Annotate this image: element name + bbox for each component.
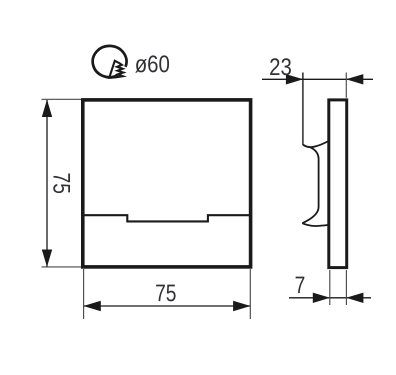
- side view top hook curve: [303, 141, 329, 147]
- bottom dim 7 line: [289, 297, 371, 299]
- bottom dim arrow left: [83, 301, 100, 311]
- front view notch line: [84, 215, 249, 221]
- top dim 23 line: [262, 78, 373, 80]
- top dim right extension: [345, 73, 347, 98]
- bottom dim arrow right: [233, 301, 250, 311]
- bottom dimension line: [84, 305, 250, 307]
- bottom 7 arrow pointing left: [346, 293, 363, 303]
- svg-text:75: 75: [155, 280, 176, 307]
- saw blade: [108, 61, 124, 78]
- left dim arrow up: [42, 100, 52, 117]
- side view clip outer line / 23 left extension: [302, 73, 304, 145]
- left dimension line: [46, 100, 48, 267]
- svg-text:23: 23: [269, 54, 292, 81]
- side view bottom hook curve: [302, 223, 328, 226]
- bottom 7 extension right: [345, 270, 347, 305]
- svg-text:ø60: ø60: [135, 51, 170, 78]
- left dim extension line top: [42, 98, 82, 100]
- left dim arrow down: [42, 250, 52, 267]
- front view square 75x75: [83, 100, 251, 267]
- top dim arrow pointing left: [346, 74, 363, 84]
- top dim arrow pointing right: [286, 74, 303, 84]
- bottom 7 extension left: [329, 270, 331, 305]
- left dim extension line bottom: [42, 266, 82, 268]
- svg-text:7: 7: [295, 272, 306, 299]
- svg-text:75: 75: [47, 173, 74, 194]
- bottom 7 arrow pointing right: [313, 293, 330, 303]
- side view body line: [318, 159, 320, 207]
- bottom dim extension line left: [83, 269, 85, 319]
- side view bottom outer curve: [302, 207, 318, 223]
- side view top inner curve: [310, 147, 319, 159]
- hole-saw symbol circle: [93, 46, 127, 77]
- side view faceplate rectangle: [329, 100, 347, 268]
- bottom dim extension line right: [249, 269, 251, 319]
